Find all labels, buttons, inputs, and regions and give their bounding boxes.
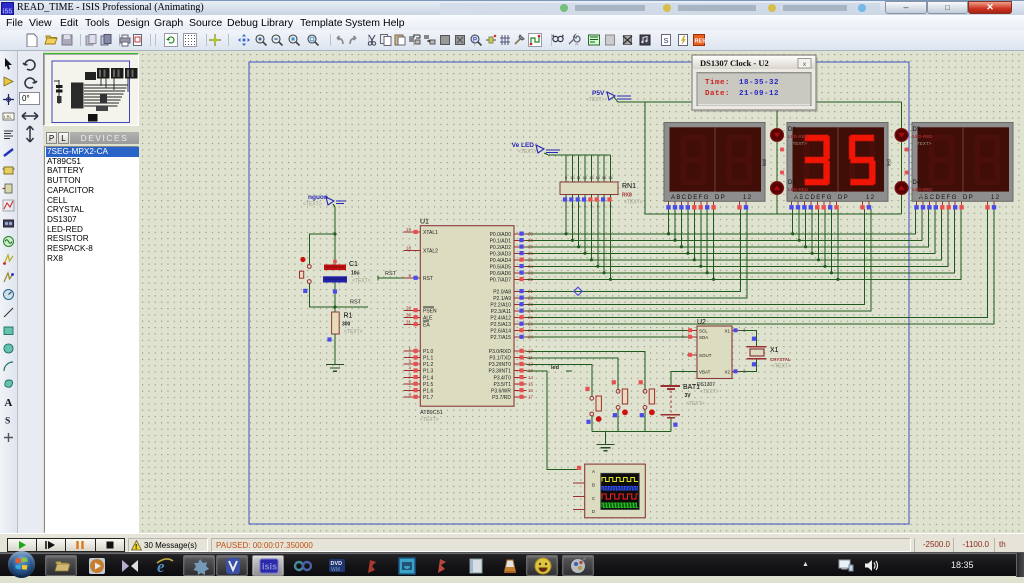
wire button K2 to rail (617, 409, 619, 431)
oscilloscope (573, 464, 645, 518)
svg-text:P2.6/A14: P2.6/A14 (490, 329, 511, 335)
svg-text:isis: isis (262, 562, 277, 572)
svg-text:DP: DP (838, 195, 849, 201)
svg-text:Date:: Date: (705, 90, 730, 98)
U2 labels (697, 319, 719, 395)
svg-text:B: B (592, 482, 595, 487)
svg-text:17: 17 (528, 395, 534, 400)
svg-text:P1.0: P1.0 (423, 349, 434, 355)
svg-text:26: 26 (528, 321, 534, 326)
BAT1 labels (683, 384, 705, 407)
svg-text:AT89C51: AT89C51 (420, 410, 443, 416)
svg-text:22: 22 (528, 295, 534, 300)
svg-text:<TEXT>: <TEXT> (586, 97, 605, 103)
svg-text:P3.1/TXD: P3.1/TXD (489, 356, 511, 362)
svg-text:<TEXT>: <TEXT> (790, 141, 807, 146)
svg-text:P2.7/A15: P2.7/A15 (490, 335, 511, 341)
wire RN1 pin bottom 5 (590, 195, 592, 260)
svg-text:12: 12 (866, 195, 875, 201)
led D2 (771, 182, 784, 195)
wire +5V rail to LEDs (614, 97, 902, 103)
wire P3.0 to button3 (526, 351, 645, 389)
svg-text:21-09-12: 21-09-12 (739, 90, 779, 98)
origin marker (574, 287, 582, 295)
button K2 (612, 380, 628, 417)
svg-text:18: 18 (406, 246, 412, 251)
7seg display DISP3 (912, 123, 1013, 202)
ground symbol (buttons) (597, 431, 615, 451)
wire ground rail (592, 430, 671, 432)
svg-text:<TEXT>: <TEXT> (420, 417, 439, 423)
7seg display DISP1 (664, 123, 765, 202)
wire R1 to ground (334, 334, 336, 365)
svg-text:XTAL2: XTAL2 (423, 249, 438, 255)
status bar (0, 533, 1024, 552)
overview panel (43, 53, 139, 126)
svg-text:led: led (887, 159, 893, 166)
svg-text:38: 38 (528, 238, 534, 243)
display DISP2 pin indicators (789, 201, 871, 209)
svg-text:30: 30 (406, 312, 412, 317)
title bar (0, 0, 1024, 15)
D4 labels (913, 180, 934, 199)
wire button to RST node (309, 283, 335, 307)
P L buttons + DEVICES header (46, 132, 57, 144)
svg-text:S: S (664, 36, 669, 45)
svg-text:RST: RST (423, 276, 433, 282)
svg-text:<TEXT>: <TEXT> (915, 194, 932, 199)
svg-text:32: 32 (528, 277, 534, 282)
resistor pack RN1 (560, 182, 618, 195)
svg-text:10: 10 (570, 175, 575, 180)
svg-text:<TEXT>: <TEXT> (915, 141, 932, 146)
svg-text:DP: DP (715, 195, 726, 201)
button K3 (639, 380, 655, 417)
svg-text:D1: D1 (788, 127, 796, 133)
svg-text:ABCDEFG: ABCDEFG (671, 195, 710, 201)
wire P2.2 (526, 209, 864, 304)
svg-text:SDA: SDA (699, 335, 708, 340)
power terminal nguon (303, 194, 346, 208)
svg-text:27: 27 (528, 328, 534, 333)
svg-text:led: led (762, 159, 768, 166)
svg-text:<TEXT>: <TEXT> (352, 278, 371, 284)
svg-text:LBL: LBL (4, 115, 13, 120)
svg-text:P1.4: P1.4 (423, 375, 434, 381)
svg-text:P0.2/AD2: P0.2/AD2 (490, 245, 512, 251)
svg-text:P0.5/AD5: P0.5/AD5 (490, 264, 512, 270)
wire P2.0 (526, 209, 740, 291)
svg-text:A: A (4, 397, 12, 408)
wire P2.6 (526, 330, 687, 332)
svg-text:P2.1/A9: P2.1/A9 (493, 296, 511, 302)
svg-text:X1: X1 (770, 347, 779, 354)
left tool column (0, 51, 18, 533)
wire P2.3 (526, 209, 871, 311)
wire RN1 pin top 6 (597, 155, 599, 182)
svg-text:RST: RST (350, 300, 362, 306)
wire C1 to R1 junction (334, 283, 336, 313)
wire P2.4 (526, 209, 987, 317)
svg-text:P0.1/AD1: P0.1/AD1 (490, 238, 512, 244)
svg-text:19: 19 (406, 227, 412, 232)
display DISP3 pin indicators (914, 201, 996, 209)
svg-text:11: 11 (528, 355, 533, 360)
svg-text:P0.6/AD6: P0.6/AD6 (490, 271, 512, 277)
svg-text:39: 39 (528, 231, 534, 236)
wire RN1 pin top 1 (565, 155, 567, 182)
wire RST stub (335, 306, 368, 308)
wire disp1 seg 2 (680, 209, 682, 247)
svg-text:15: 15 (528, 381, 534, 386)
wire disp1 seg 3 (687, 209, 689, 253)
svg-text:P2.3/A11: P2.3/A11 (491, 309, 511, 315)
svg-text:21: 21 (528, 289, 534, 294)
svg-text:P2.0/A8: P2.0/A8 (493, 289, 511, 295)
svg-text:13: 13 (589, 175, 594, 180)
wire disp1 seg 1 (674, 209, 676, 240)
svg-text:3V: 3V (685, 393, 692, 399)
svg-text:P3.5/T1: P3.5/T1 (493, 382, 511, 388)
wire disp2 seg 3 (811, 209, 813, 253)
wire RN1 pin top 7 (603, 155, 605, 182)
svg-text:13: 13 (528, 368, 534, 373)
U2 pins (681, 328, 746, 375)
wire RN1 pin bottom 7 (603, 195, 605, 273)
wire RN1 vcc rail (544, 153, 610, 155)
svg-text:36: 36 (528, 251, 534, 256)
ground symbol (reset) (326, 365, 344, 372)
svg-text:35: 35 (528, 257, 534, 262)
svg-text:P0.3/AD3: P0.3/AD3 (490, 251, 512, 257)
wire disp1 seg 6 (706, 209, 708, 273)
wire P0.7/seg bus (526, 209, 960, 279)
svg-text:<TEXT>: <TEXT> (700, 389, 719, 395)
svg-text:D4: D4 (913, 180, 921, 186)
svg-text:29: 29 (406, 305, 412, 310)
svg-text:12: 12 (528, 362, 534, 367)
wire P2.7 (526, 336, 687, 338)
svg-text:31: 31 (406, 319, 412, 324)
wire disp2 seg 1 (798, 209, 800, 240)
R1 labels (342, 313, 363, 336)
wire RN1 pin top 4 (584, 155, 586, 182)
svg-text:SCL: SCL (699, 329, 708, 334)
svg-text:<TEXT>: <TEXT> (303, 202, 322, 208)
svg-text:16: 16 (528, 388, 534, 393)
rotation cluster (18, 51, 43, 533)
power terminal P5V (586, 90, 631, 103)
start orb (8, 551, 35, 578)
C1 labels (349, 261, 371, 284)
wire disp1 seg 4 (693, 209, 695, 260)
grid dots (140, 51, 1024, 533)
svg-text:A: A (575, 42, 579, 48)
wire P0.1/seg bus (526, 209, 922, 240)
svg-text:P5V: P5V (592, 90, 605, 97)
svg-text:P1.3: P1.3 (423, 369, 434, 375)
svg-text:P: P (473, 38, 477, 44)
wire P0.0/seg bus (526, 209, 915, 234)
wire branch to button (309, 234, 335, 265)
D1 labels (788, 127, 809, 146)
wire nguon to C1 (333, 204, 335, 265)
svg-text:P0.0/AD0: P0.0/AD0 (490, 232, 512, 238)
button reset (300, 257, 312, 293)
svg-text:LED-RED: LED-RED (913, 134, 934, 139)
svg-text:14: 14 (596, 175, 601, 180)
svg-text:RN1: RN1 (622, 183, 636, 190)
wire button K1 to rail (591, 416, 593, 431)
svg-text:LED-RED: LED-RED (913, 187, 934, 192)
wire P0.3/seg bus (526, 209, 935, 253)
led D4 (895, 182, 908, 195)
display DISP1 pin indicators (666, 201, 748, 209)
svg-text:37: 37 (528, 244, 534, 249)
button K1 (585, 387, 601, 424)
svg-text:RST: RST (385, 271, 397, 277)
svg-text:24: 24 (528, 308, 534, 313)
svg-text:LED-RED: LED-RED (788, 134, 809, 139)
svg-text:<TEXT>: <TEXT> (518, 149, 537, 155)
svg-text:15: 15 (602, 175, 607, 180)
svg-text:D3: D3 (913, 127, 921, 133)
svg-text:D2: D2 (788, 180, 796, 186)
wire P3.2 to button1 (526, 364, 591, 396)
tray (802, 561, 809, 568)
svg-text:CRYSTAL: CRYSTAL (770, 357, 791, 362)
window buttons (885, 1, 927, 14)
svg-text:P3.6/WR: P3.6/WR (491, 388, 511, 394)
svg-text:ALE: ALE (423, 315, 433, 321)
wire RN1 pin bottom 1 (565, 195, 567, 234)
capacitor C1 (323, 260, 347, 283)
rtc U2 DS1307 body (697, 326, 732, 379)
schematic canvas (140, 51, 1024, 533)
svg-text:<TEXT>: <TEXT> (624, 200, 643, 206)
7seg display DISP2 (787, 123, 888, 202)
wire RN1 pin top 3 (578, 155, 580, 182)
svg-text:RES: RES (695, 39, 707, 45)
svg-text:12: 12 (583, 175, 588, 180)
battery BAT1 (661, 386, 681, 418)
svg-text:SOUT: SOUT (699, 353, 712, 358)
svg-text:led: led (551, 365, 559, 371)
wire disp1 seg 7 (713, 209, 715, 279)
svg-text:P1.5: P1.5 (423, 382, 434, 388)
svg-text:LED-RED: LED-RED (788, 187, 809, 192)
wire P3.1 to button2 (526, 358, 618, 390)
svg-text:U1: U1 (420, 219, 429, 226)
svg-text:P1.2: P1.2 (423, 362, 434, 368)
wire P2.1 (526, 209, 747, 298)
svg-text:P3.4/T0: P3.4/T0 (493, 375, 511, 381)
wire disp2 seg 0 (792, 209, 794, 234)
wire RN1 pin bottom 4 (584, 195, 586, 254)
led column indicators (762, 148, 908, 175)
svg-text:14: 14 (528, 375, 534, 380)
svg-text:WM: WM (331, 567, 340, 573)
wire disp2 seg 5 (824, 209, 826, 266)
wire BAT1 to gnd rail (670, 418, 672, 431)
device list (44, 146, 139, 533)
svg-text:PSEN: PSEN (423, 308, 437, 314)
svg-text:10: 10 (528, 349, 534, 354)
toolbar (0, 30, 1024, 51)
sheet border (249, 62, 909, 524)
svg-text:P1.1: P1.1 (423, 356, 434, 362)
power terminal Ve LED (512, 142, 560, 155)
D2 labels (788, 180, 809, 199)
svg-text:Ve LED: Ve LED (512, 142, 535, 149)
menu bar (0, 15, 1024, 30)
U1 left pins (404, 227, 439, 401)
wire disp1 seg 5 (700, 209, 702, 266)
wire RN1 pin top 2 (571, 155, 573, 182)
svg-text:P2.5/A13: P2.5/A13 (490, 322, 511, 328)
svg-text:P2.4/A12: P2.4/A12 (490, 315, 511, 321)
svg-text:12: 12 (743, 195, 752, 201)
svg-text:300: 300 (342, 322, 351, 328)
D3 labels (913, 127, 934, 146)
svg-text:P1.6: P1.6 (423, 388, 434, 394)
svg-text:Time:: Time: (705, 79, 730, 87)
svg-text:<TEXT>: <TEXT> (686, 401, 705, 407)
svg-text:P0.7/AD7: P0.7/AD7 (490, 277, 512, 283)
mcu U1 AT89C51 body (420, 226, 514, 407)
wire disp1 seg 0 (668, 209, 670, 234)
svg-text:RX8: RX8 (622, 193, 632, 199)
taskbar (0, 552, 1024, 576)
svg-text:EA: EA (423, 322, 430, 328)
led D1 (771, 129, 784, 142)
svg-text:23: 23 (528, 302, 534, 307)
svg-text:10u: 10u (351, 271, 360, 277)
wire RST to U1 (378, 277, 404, 279)
wire RN1 pin top 5 (590, 155, 592, 182)
wire crystal to U2 X2 (740, 360, 757, 372)
svg-text:R1: R1 (344, 313, 353, 320)
wire RN1 pin bottom 6 (597, 195, 599, 267)
svg-text:P2.2/A10: P2.2/A10 (490, 302, 511, 308)
svg-text:C1: C1 (349, 261, 358, 268)
svg-text:P3.0/RXD: P3.0/RXD (489, 349, 512, 355)
svg-text:P3.7/RD: P3.7/RD (492, 395, 511, 401)
U1 right pins (488, 231, 533, 401)
wire P0.5/seg bus (526, 209, 948, 266)
svg-text:nguon: nguon (308, 194, 328, 201)
RN1 labels (622, 183, 643, 206)
wire P2.5 (526, 209, 994, 324)
wire U2 X1 to crystal (740, 331, 757, 346)
svg-text:P3.2/INT0: P3.2/INT0 (488, 362, 511, 368)
svg-text:DP: DP (963, 195, 974, 201)
wire P0.6/seg bus (526, 209, 954, 273)
svg-text:VBAT: VBAT (699, 370, 711, 375)
wire P0.4/seg bus (526, 209, 941, 260)
svg-text:A: A (592, 469, 595, 474)
svg-text:28: 28 (528, 335, 534, 340)
svg-text:25: 25 (528, 315, 534, 320)
crystal X1 (747, 347, 767, 359)
U1 labels (420, 219, 443, 424)
wire P0.2/seg bus (526, 209, 928, 247)
svg-text:U2: U2 (697, 319, 706, 326)
svg-text:!: ! (135, 544, 137, 551)
RN1 pin numbers (565, 175, 614, 209)
X1 labels (770, 347, 791, 370)
resistor R1 (332, 312, 340, 334)
svg-text:12: 12 (991, 195, 1000, 201)
svg-text:<TEXT>: <TEXT> (772, 364, 791, 370)
svg-text:<TEXT>: <TEXT> (344, 329, 363, 335)
svg-text:S: S (5, 417, 10, 427)
svg-text:BAT1: BAT1 (683, 384, 700, 391)
svg-text:X2: X2 (724, 370, 730, 375)
svg-text:16: 16 (608, 175, 613, 180)
wire RN1 pin bottom 3 (578, 195, 580, 247)
led D3 (895, 129, 908, 142)
wire disp2 seg 6 (830, 209, 832, 273)
wire U2 VBAT to BAT1 (671, 372, 697, 386)
wire disp2 seg 4 (818, 209, 820, 260)
svg-text:X1: X1 (724, 329, 730, 334)
svg-text:18-35-32: 18-35-32 (739, 79, 779, 87)
popup DS1307 Clock - U2 (692, 55, 818, 112)
svg-text:P1.7: P1.7 (423, 395, 434, 401)
wire disp2 seg 7 (837, 209, 839, 279)
svg-text:P3.3/INT1: P3.3/INT1 (488, 369, 511, 375)
svg-text:P0.4/AD4: P0.4/AD4 (490, 258, 512, 264)
wire RN1 pin top 8 (610, 155, 612, 182)
wire RN1 pin bottom 2 (571, 195, 573, 241)
wire RN1 pin bottom 8 (610, 195, 612, 280)
svg-text:33: 33 (528, 270, 534, 275)
svg-text:XTAL1: XTAL1 (423, 230, 438, 236)
wire disp2 seg 2 (805, 209, 807, 247)
svg-text:<TEXT>: <TEXT> (790, 194, 807, 199)
svg-text:34: 34 (528, 264, 534, 269)
wire button K3 to rail (644, 409, 646, 431)
svg-text:DS1307 Clock - U2: DS1307 Clock - U2 (700, 58, 769, 68)
wire P3.3 led to scope (526, 371, 576, 470)
